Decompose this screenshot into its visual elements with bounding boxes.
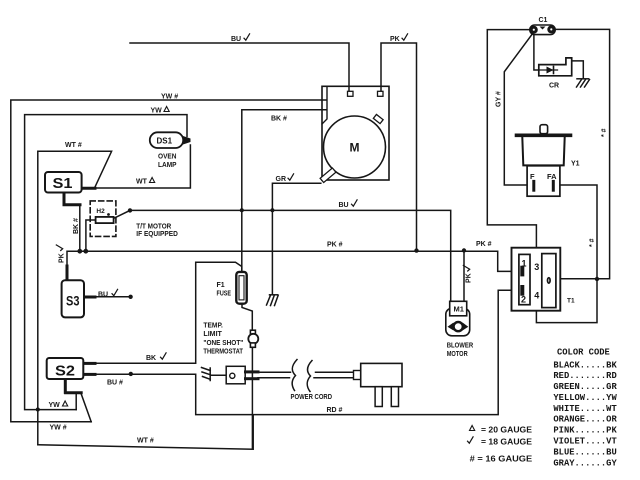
svg-text:3: 3 — [534, 262, 539, 272]
svg-text:2: 2 — [521, 295, 526, 305]
node YW rail junction — [36, 408, 40, 412]
label WT 20ga S1 — [136, 178, 155, 186]
svg-text:VIOLET....VT: VIOLET....VT — [553, 437, 617, 447]
svg-text:T1: T1 — [567, 298, 575, 305]
svg-text:YW #: YW # — [161, 94, 178, 101]
svg-text:BU: BU — [339, 202, 349, 209]
node GR/BU crossing junction — [270, 208, 274, 212]
T/T motor H2 dashed box — [90, 201, 116, 237]
svg-text:BU #: BU # — [107, 380, 123, 387]
wire CR to ground — [572, 61, 584, 78]
svg-text:LAMP: LAMP — [158, 162, 177, 169]
wire BU 18ga middle horizontal — [130, 210, 451, 301]
svg-text:T/T MOTOR: T/T MOTOR — [136, 224, 171, 231]
svg-text:= 18 GAUGE: = 18 GAUGE — [481, 437, 532, 447]
power cord plug — [354, 363, 403, 406]
svg-text:WT #: WT # — [137, 438, 154, 445]
node BK/BU crossing junction — [240, 208, 244, 212]
svg-text:* #: * # — [601, 128, 608, 137]
svg-text:M1: M1 — [454, 305, 464, 314]
wire YW 16ga outer left loop — [11, 100, 326, 422]
svg-text:H2: H2 — [96, 208, 105, 215]
wire BU 18ga S3 right — [84, 296, 131, 298]
motor terminal pin — [378, 91, 384, 96]
svg-text:GREEN.....GR: GREEN.....GR — [553, 382, 617, 392]
svg-text:GR: GR — [276, 176, 287, 183]
svg-text:RED.......RD: RED.......RD — [553, 371, 616, 381]
oven lamp DS1 — [150, 132, 191, 148]
svg-text:LIMIT: LIMIT — [203, 331, 222, 338]
wire BU 18ga top — [130, 43, 349, 91]
node PK rail/blower junction — [462, 248, 466, 252]
svg-text:YELLOW....YW: YELLOW....YW — [553, 393, 617, 403]
thermostat temp limit — [248, 330, 258, 347]
label YW 20ga top — [151, 107, 170, 115]
label PK 18ga S3 lead (rotated) — [56, 245, 65, 263]
wire H2 left lead — [86, 220, 96, 251]
svg-text:S1: S1 — [53, 175, 73, 192]
fuse F1 — [236, 272, 246, 304]
wire WT 16ga bottom long — [38, 415, 253, 450]
svg-text:YW #: YW # — [50, 425, 67, 432]
svg-text:CR: CR — [549, 83, 559, 90]
svg-text:GY #: GY # — [496, 91, 503, 107]
wire S1 bottom stub — [64, 193, 80, 205]
plug prong — [375, 387, 382, 407]
wire PK 18ga to blower — [463, 251, 465, 302]
svg-text:IF EQUIPPED: IF EQUIPPED — [136, 231, 178, 238]
svg-text:BU: BU — [231, 36, 241, 43]
Y1 pin F — [532, 181, 535, 190]
wire S2 right stub upper — [83, 362, 95, 365]
svg-text:YW: YW — [151, 108, 163, 115]
svg-text:PK: PK — [390, 36, 400, 43]
label PK 18ga blower lead (rotated) — [463, 265, 472, 283]
svg-text:POWER CORD: POWER CORD — [291, 394, 333, 401]
legend 20 gauge — [470, 425, 533, 435]
diode CR — [539, 58, 572, 90]
interlock switch box — [226, 366, 258, 384]
wire C1 right to T1 — [551, 29, 610, 278]
svg-text:TEMP.: TEMP. — [203, 323, 223, 330]
wire GR 18ga motor to ground — [272, 183, 320, 294]
wire S2 bottom bar — [66, 391, 82, 394]
svg-text:GRAY......GY: GRAY......GY — [553, 458, 617, 468]
svg-text:PK: PK — [466, 273, 473, 283]
svg-text:S2: S2 — [55, 363, 75, 380]
wire power cord upper — [258, 371, 354, 373]
legend 18 gauge — [468, 437, 533, 447]
wire power cord lower — [258, 377, 354, 379]
ground (CR) — [577, 79, 590, 87]
motor terminal pin — [348, 91, 354, 96]
capacitor C1 — [530, 17, 556, 35]
chassis ground fork (interlock) — [202, 368, 211, 381]
svg-text:WT #: WT # — [65, 142, 82, 149]
svg-text:BLACK.....BK: BLACK.....BK — [553, 360, 617, 370]
svg-text:BK: BK — [146, 355, 156, 362]
svg-text:1: 1 — [522, 259, 527, 269]
wire GY 16ga C1 to magnetron F — [504, 33, 533, 185]
svg-text:Y1: Y1 — [571, 161, 580, 168]
wire S3 right stub — [84, 296, 95, 299]
svg-text:BU: BU — [98, 292, 108, 299]
svg-text:YW: YW — [49, 402, 61, 409]
wire ground fork to interlock — [211, 374, 227, 376]
blower motor M1 — [446, 301, 470, 336]
svg-text:FUSE: FUSE — [217, 291, 232, 298]
svg-text:RD #: RD # — [327, 407, 343, 414]
wire S2 bottom YW lead — [75, 394, 77, 410]
wire S2 bottom stub — [64, 379, 67, 392]
Y1 antenna — [540, 125, 548, 134]
Y1 body — [522, 137, 564, 165]
label BU 18ga top — [231, 34, 250, 43]
svg-text:FA: FA — [547, 172, 557, 181]
wire magnetron FA to T1 terminal 4 — [536, 185, 597, 323]
label BU 18ga S3 — [98, 289, 118, 298]
svg-text:"ONE SHOT": "ONE SHOT" — [203, 340, 243, 347]
cord terminal bars — [246, 370, 259, 373]
svg-text:MOTOR: MOTOR — [447, 351, 468, 358]
svg-text:S3: S3 — [66, 293, 80, 309]
svg-text:DS1: DS1 — [157, 137, 173, 146]
svg-text:F: F — [530, 172, 535, 181]
Y1 filament box — [527, 166, 560, 196]
node PK top/PK rail junction — [414, 248, 418, 252]
node FA/T1 junction — [595, 277, 599, 281]
motor circle M — [324, 116, 386, 178]
node H2/BU junction — [128, 208, 132, 212]
T1 terminal 1 — [510, 270, 526, 272]
svg-text:WT: WT — [136, 179, 148, 186]
wire S1 right stub — [82, 187, 95, 190]
svg-text:THERMOSTAT: THERMOSTAT — [203, 349, 243, 356]
wire BK 16ga motor to fuse — [242, 110, 326, 272]
wire BK 18ga S2 to fuse — [83, 262, 242, 363]
wire thermostat to interlock and WT rail — [251, 347, 253, 449]
svg-text:F1: F1 — [217, 282, 225, 289]
Y1 pin FA — [552, 181, 555, 190]
motor tab bottom-left ground lug — [320, 168, 336, 182]
transformer T1 — [510, 248, 575, 311]
motor tab top-right — [373, 114, 383, 123]
svg-text:M: M — [350, 141, 360, 155]
wire YW 20ga diagonal to YW rail — [81, 394, 91, 422]
switch S3 — [62, 280, 84, 317]
svg-text:C1: C1 — [539, 17, 548, 24]
svg-text:BLOWER: BLOWER — [447, 343, 474, 350]
svg-text:* #: * # — [589, 238, 596, 247]
svg-text:WHITE.....WT: WHITE.....WT — [553, 404, 617, 414]
wire C1 to diode CR — [534, 34, 539, 71]
svg-text:BK #: BK # — [271, 116, 287, 123]
wire H2 right diagonal — [114, 210, 130, 218]
svg-text:COLOR CODE: COLOR CODE — [557, 348, 610, 358]
label YW 20ga S2 — [49, 401, 68, 409]
legend 16 gauge — [470, 454, 533, 464]
svg-text:PK #: PK # — [476, 241, 492, 248]
wire PK 18ga top — [381, 43, 417, 251]
switch S1 — [45, 172, 82, 193]
wire WT 16ga S1 top — [38, 151, 112, 445]
thick terminal stubs — [64, 188, 95, 393]
label BU 18ga middle — [339, 200, 358, 209]
svg-text:PK: PK — [59, 253, 66, 263]
wire WT 20ga S1 to lamp — [82, 145, 191, 188]
T1 terminal 2 — [520, 287, 524, 294]
wire S3 top stub — [66, 266, 69, 280]
label PK 18ga top — [390, 34, 408, 43]
resistor H2 — [96, 208, 114, 223]
T1 centre terminal — [548, 278, 551, 283]
wire BK 16ga S1 bottom — [79, 205, 81, 251]
svg-text:= 20 GAUGE: = 20 GAUGE — [481, 425, 532, 435]
label BK 18ga S2 — [146, 353, 166, 362]
wire S2 right stub lower — [83, 373, 95, 376]
node H2/PK junction — [83, 249, 88, 254]
wire YW 20ga second loop — [25, 115, 187, 410]
svg-text:# = 16 GAUGE: # = 16 GAUGE — [470, 454, 533, 464]
svg-text:BK #: BK # — [73, 218, 80, 234]
fan motor M box — [320, 86, 389, 182]
plug prong — [391, 387, 398, 407]
node S3 BU junction — [128, 295, 132, 299]
label GR 18ga — [276, 174, 294, 183]
svg-text:BLUE......BU: BLUE......BU — [553, 447, 616, 457]
magnetron Y1 — [517, 125, 580, 197]
svg-text:PINK......PK: PINK......PK — [553, 426, 617, 436]
switch S2 — [47, 358, 84, 380]
wire C1 left to T1 terminal 3 — [487, 30, 536, 263]
svg-text:ORANGE....OR: ORANGE....OR — [553, 415, 617, 425]
node S1/PK junction — [77, 249, 82, 254]
wire BU 16ga S2 bottom rail to T1 — [83, 290, 521, 414]
wire fuse bottom jog — [242, 304, 252, 331]
node S2 BU junction — [129, 372, 133, 376]
color code table — [553, 348, 617, 469]
chassis ground fork (GR wire) — [267, 295, 279, 306]
svg-text:4: 4 — [534, 290, 539, 300]
Y1 cap bar — [517, 134, 571, 138]
wire PK 16ga long horizontal — [67, 251, 522, 280]
svg-text:OVEN: OVEN — [158, 154, 177, 161]
power cord break marks — [292, 360, 312, 392]
svg-text:PK #: PK # — [327, 242, 343, 249]
